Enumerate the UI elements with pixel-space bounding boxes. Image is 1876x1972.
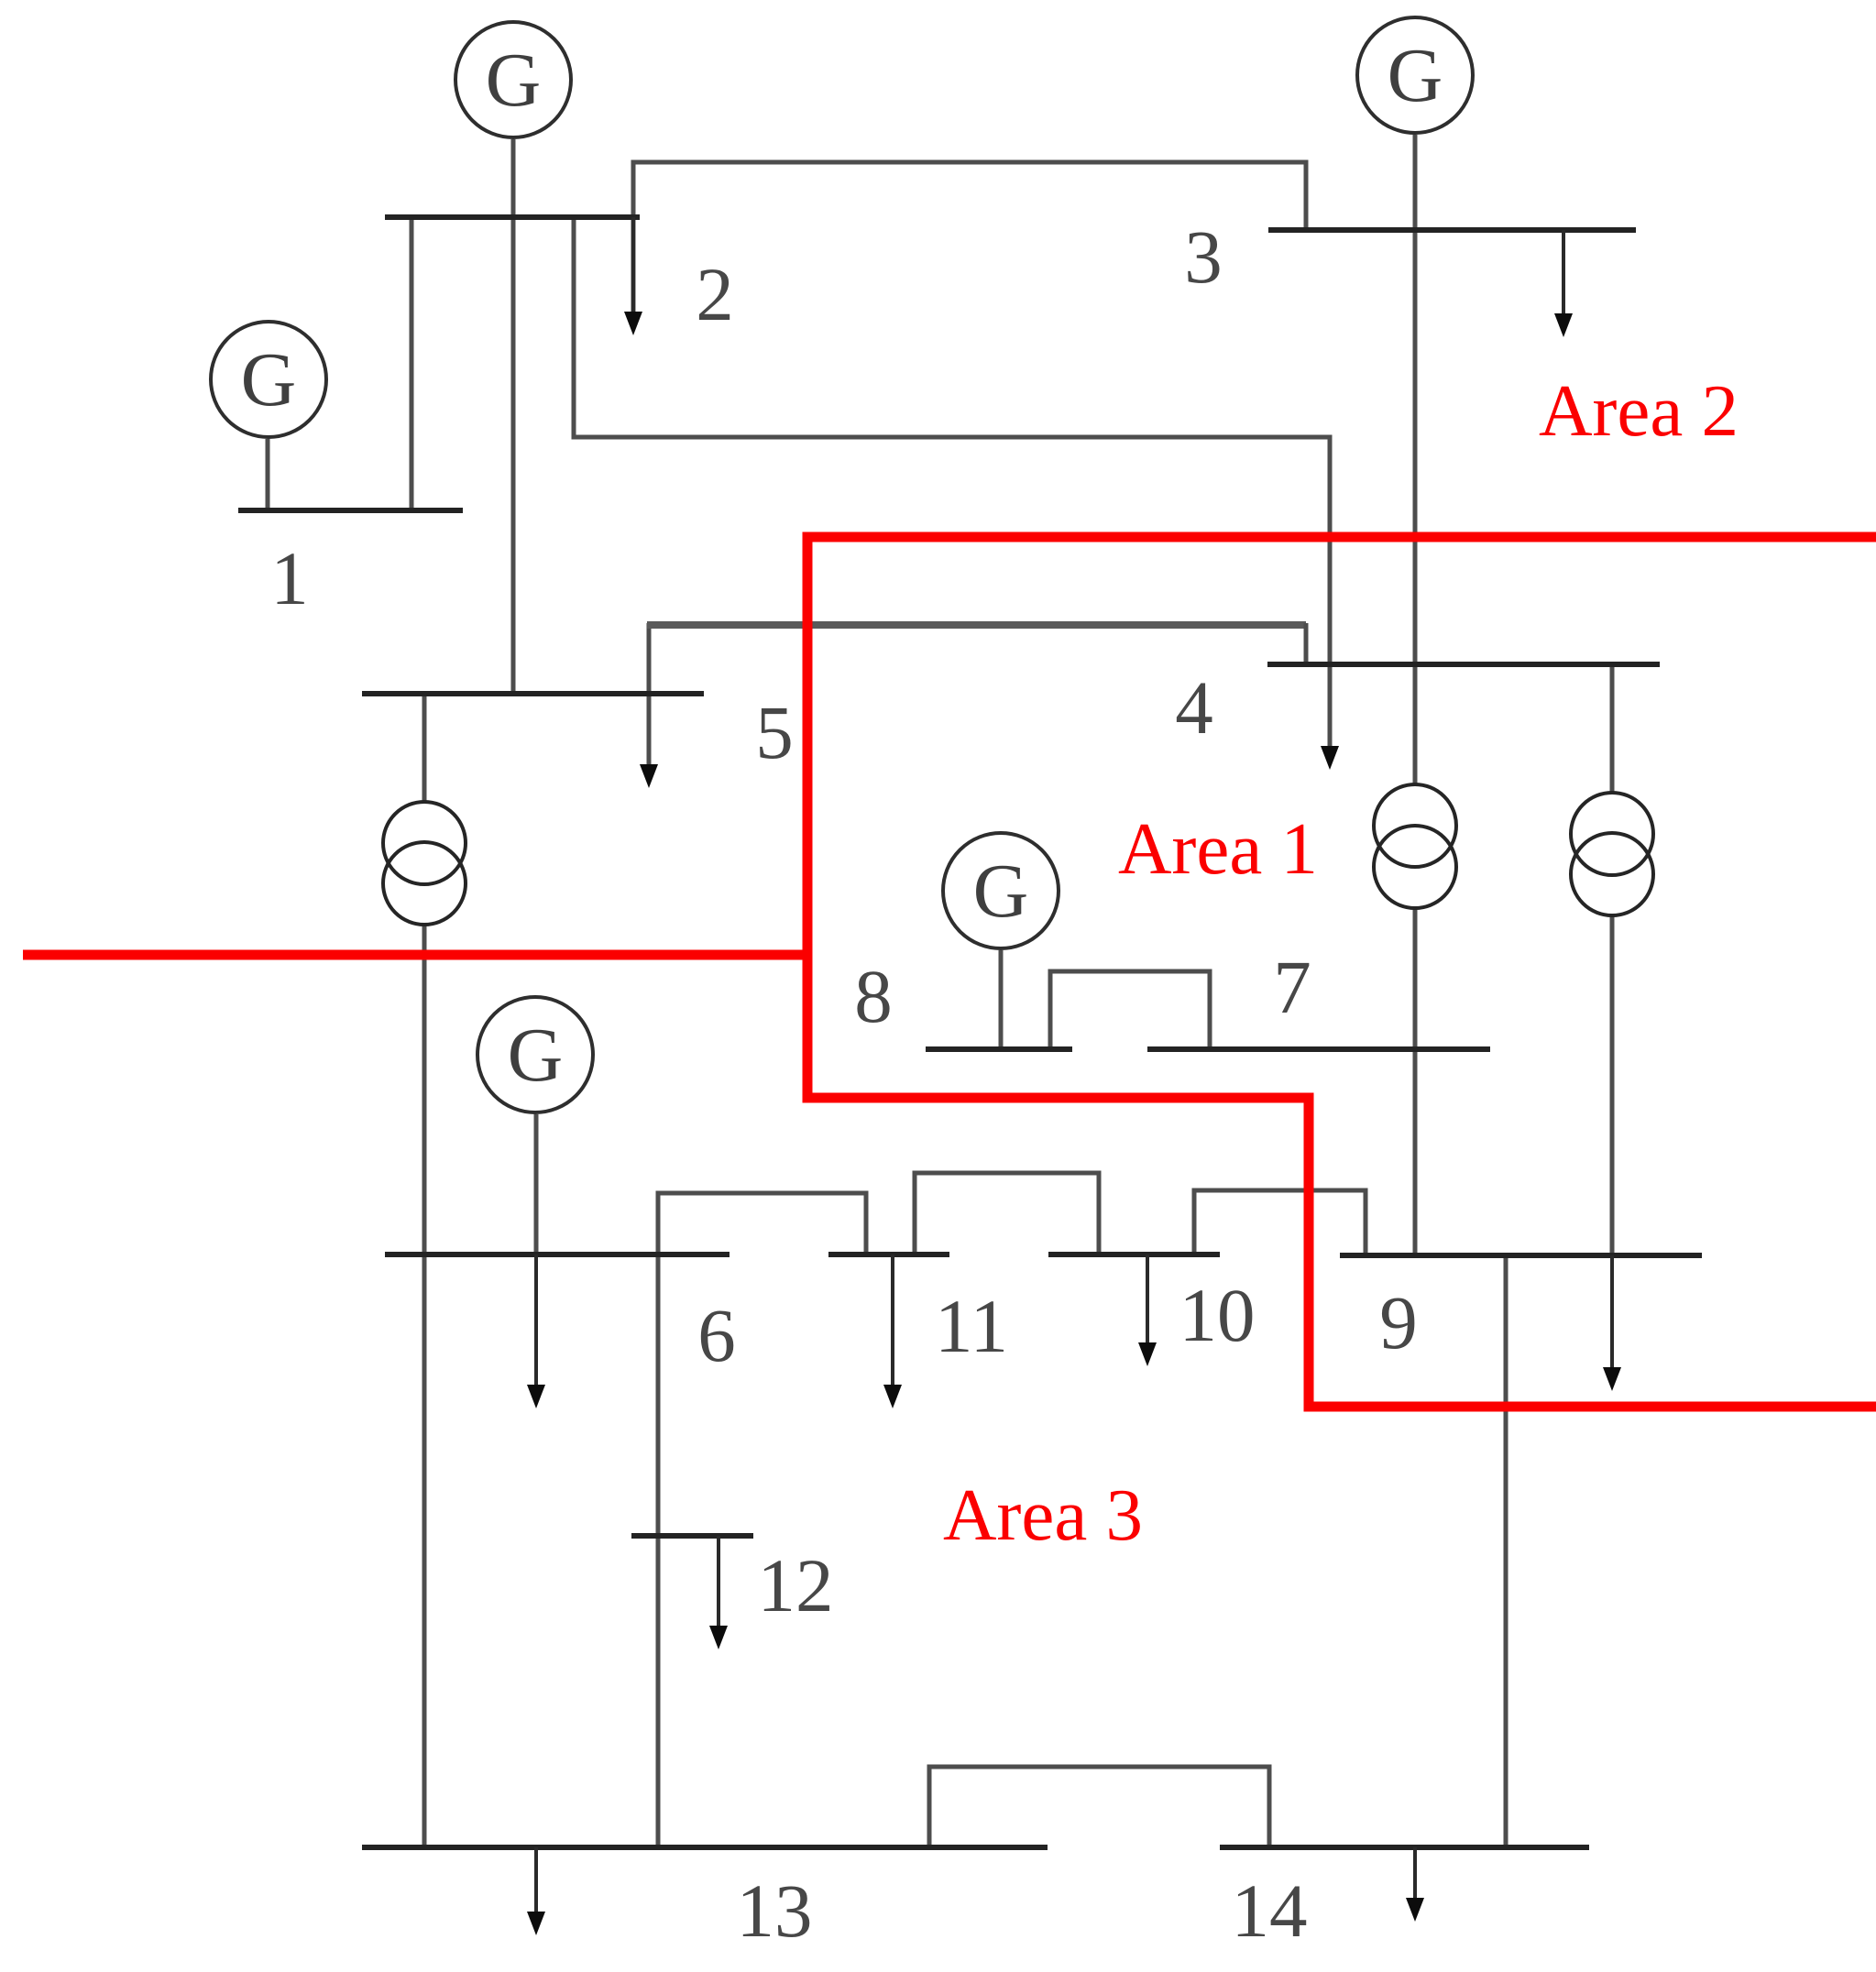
generator G at bus 6 bbox=[477, 997, 593, 1112]
load arrow bus 14 bbox=[1406, 1847, 1424, 1922]
wire bus4 to transformer 4-7 bbox=[1413, 663, 1418, 786]
wire line 6-12-13 vertical bbox=[656, 1193, 661, 1847]
svg-text:1: 1 bbox=[270, 536, 309, 620]
svg-text:9: 9 bbox=[1379, 1280, 1418, 1364]
wire line 13-14 bridge bbox=[929, 1767, 1269, 1847]
svg-text:12: 12 bbox=[758, 1543, 834, 1627]
generator G at bus 2 bbox=[455, 22, 571, 137]
svg-text:G: G bbox=[241, 337, 297, 422]
svg-text:G: G bbox=[973, 849, 1029, 934]
generator G at bus 8 bbox=[943, 833, 1059, 948]
area boundary red polyline (Area1/Area2/Area3 separator) bbox=[807, 537, 1876, 1407]
transformer 5-6 bbox=[383, 802, 466, 925]
area boundary red left segment bbox=[23, 950, 812, 960]
load arrow bus 12 bbox=[709, 1536, 728, 1649]
generator G at bus 1 bbox=[211, 322, 326, 437]
load arrow bus 10 bbox=[1138, 1254, 1157, 1366]
wire G2 stem + line 2-5 bbox=[511, 139, 516, 694]
wire G1 stem bbox=[266, 439, 270, 510]
wire bus4 to transformer 4-9 bbox=[1610, 663, 1615, 794]
bus 9 bbox=[1340, 1253, 1702, 1258]
wire line 7-9 bbox=[1413, 1049, 1418, 1255]
wire line 10-9 bridge bbox=[1194, 1190, 1366, 1255]
wire transformer 5-6 to bus6 + line 6-13 bbox=[422, 923, 427, 1847]
wire line 4-5 jog bbox=[647, 623, 652, 766]
svg-text:6: 6 bbox=[697, 1293, 736, 1377]
svg-text:G: G bbox=[1388, 33, 1443, 118]
wire line 2-4 jog bbox=[574, 217, 1330, 747]
load arrow bus 11 bbox=[883, 1254, 902, 1408]
wire line 11-10 bridge bbox=[915, 1173, 1099, 1254]
svg-text:3: 3 bbox=[1184, 214, 1223, 299]
generator G at bus 3 bbox=[1357, 17, 1473, 133]
bus 7 bbox=[1147, 1046, 1490, 1052]
wire line 6-11 bridge bbox=[658, 1193, 866, 1254]
svg-text:Area 1: Area 1 bbox=[1118, 807, 1318, 890]
svg-text:7: 7 bbox=[1273, 945, 1311, 1029]
bus 4 bbox=[1267, 662, 1660, 667]
bus 8 bbox=[926, 1046, 1072, 1052]
svg-text:14: 14 bbox=[1232, 1868, 1308, 1953]
wire line 7-8 bridge bbox=[1050, 971, 1210, 1049]
bus 14 bbox=[1220, 1845, 1589, 1850]
wire transformer 4-9 to bus9 bbox=[1610, 914, 1615, 1255]
svg-text:10: 10 bbox=[1179, 1273, 1256, 1357]
bus 11 bbox=[828, 1252, 949, 1257]
svg-text:Area 3: Area 3 bbox=[943, 1474, 1143, 1556]
svg-text:G: G bbox=[508, 1013, 564, 1098]
svg-text:Area 2: Area 2 bbox=[1539, 369, 1739, 452]
load arrow bus 2 bbox=[624, 217, 642, 335]
svg-text:8: 8 bbox=[854, 954, 893, 1038]
bus 2 bbox=[385, 214, 640, 220]
wire line 1-2 bbox=[410, 217, 414, 510]
load arrow bus 3 bbox=[1554, 230, 1573, 337]
bus 10 bbox=[1048, 1252, 1220, 1257]
load arrow bus 13 bbox=[527, 1847, 545, 1935]
svg-text:13: 13 bbox=[737, 1868, 813, 1953]
transformer 4-9 bbox=[1571, 793, 1653, 915]
bus 13 bbox=[362, 1845, 1048, 1850]
svg-text:5: 5 bbox=[755, 690, 794, 774]
bus 12 bbox=[631, 1533, 753, 1539]
wire G6 stem bbox=[534, 1114, 539, 1254]
load arrow bus 6 bbox=[527, 1254, 545, 1408]
load arrow bus 9 bbox=[1610, 1255, 1614, 1369]
svg-text:11: 11 bbox=[935, 1284, 1008, 1368]
wire bus5 to transformer 5-6 bbox=[422, 694, 427, 804]
load arrow bus 4 bbox=[1321, 746, 1339, 770]
wire line 2-3 horizontal bbox=[633, 162, 1306, 313]
wire line 9-14 bbox=[1504, 1255, 1508, 1847]
svg-text:2: 2 bbox=[696, 252, 734, 336]
wire transformer 4-7 to bus7 bbox=[1413, 906, 1418, 1049]
svg-text:4: 4 bbox=[1175, 665, 1213, 750]
wire G8 stem bbox=[999, 950, 1004, 1049]
transformer 4-7 bbox=[1374, 784, 1456, 908]
load arrow bus 5 bbox=[640, 764, 658, 788]
bus 3 bbox=[1268, 227, 1636, 233]
svg-text:G: G bbox=[486, 38, 542, 123]
bus 5 bbox=[362, 691, 704, 696]
wire G3 stem + line 3-4 bbox=[1413, 135, 1418, 663]
bus 6 bbox=[385, 1252, 730, 1257]
bus 1 bbox=[238, 508, 463, 513]
